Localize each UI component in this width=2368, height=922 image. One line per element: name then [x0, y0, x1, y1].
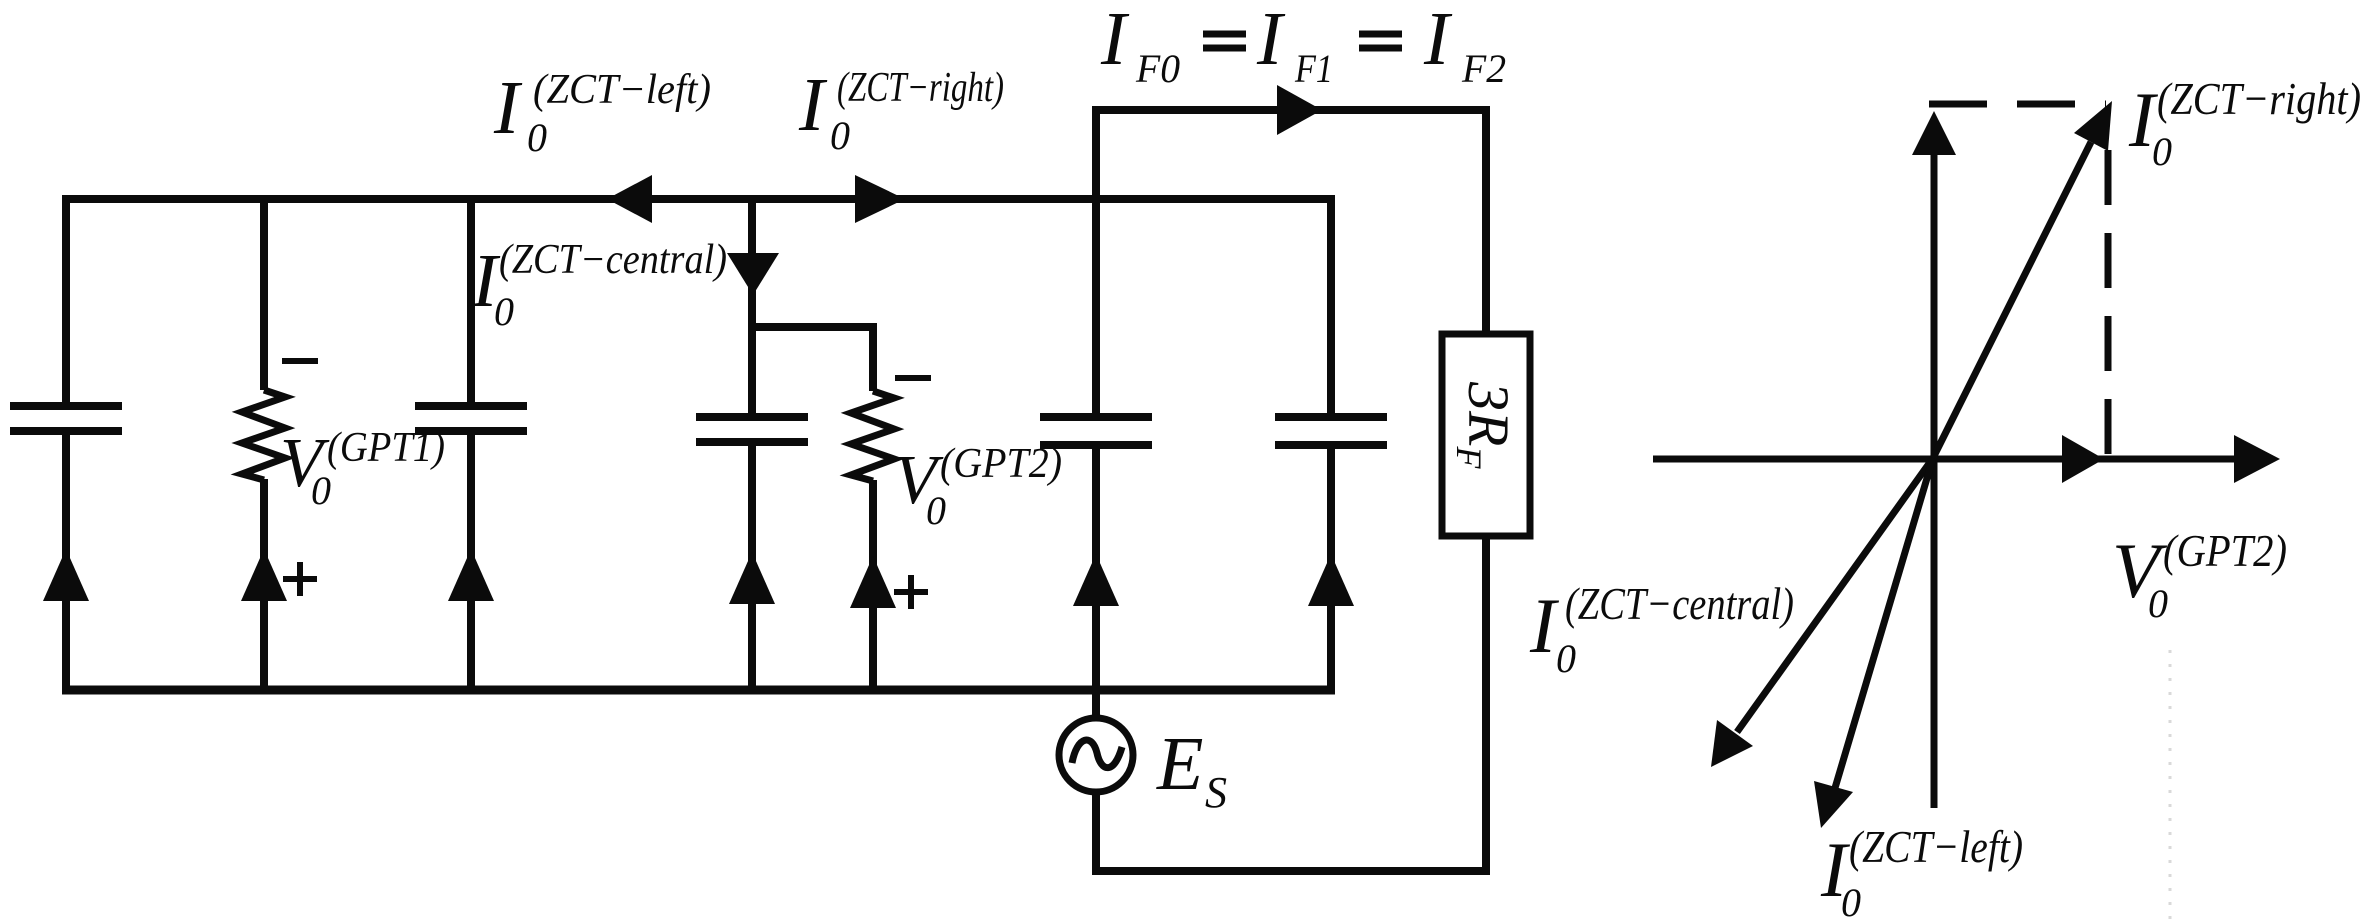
arrow right on outer top wire IF	[1277, 85, 1322, 135]
wire branch5 upper	[1327, 195, 1335, 414]
svg-text:(ZCT−left): (ZCT−left)	[1849, 821, 2023, 872]
label I0 ZCT-left	[493, 66, 711, 160]
svg-text:(GPT2): (GPT2)	[2163, 525, 2287, 576]
svg-text:F0: F0	[1135, 46, 1180, 91]
svg-text:I: I	[1423, 0, 1453, 81]
wire outer top	[1092, 106, 1490, 114]
phasor horizontal axis	[1653, 456, 2240, 463]
svg-text:0: 0	[2148, 581, 2168, 626]
svg-text:F1: F1	[1294, 46, 1333, 91]
label phasor I0 ZCT-central	[1529, 578, 1794, 681]
arrow right on top rail I0 ZCT-right	[855, 175, 905, 223]
svg-text:(ZCT−right): (ZCT−right)	[837, 65, 1004, 111]
wire branch2 lower	[260, 479, 268, 692]
phasor axis arrow right	[2234, 435, 2280, 483]
capacitor C1	[10, 406, 122, 431]
arrow down central branch	[727, 253, 779, 295]
wire branch3 upper	[467, 195, 475, 403]
arrow up R2 branch	[850, 556, 896, 608]
minus sign R1	[282, 358, 318, 364]
label V0 GPT2	[894, 441, 1062, 533]
wire below source	[1092, 792, 1100, 875]
svg-text:0: 0	[1841, 880, 1861, 922]
phasor vertical axis	[1931, 150, 1938, 808]
wire branch1 lower	[62, 434, 70, 692]
svg-text:0: 0	[494, 289, 514, 334]
plus sign R2	[894, 575, 928, 609]
arrow up branch5	[1308, 554, 1354, 606]
phasor I0-right arrowhead	[2074, 101, 2112, 151]
wire bottom rail	[62, 686, 1335, 695]
phasor I0-left arrowhead	[1814, 781, 1853, 828]
svg-text:0: 0	[830, 113, 850, 158]
wire central branch upper	[748, 195, 756, 414]
svg-text:0: 0	[527, 115, 547, 160]
label ES	[1156, 722, 1227, 817]
svg-text:(GPT1): (GPT1)	[327, 425, 445, 471]
arrow up branch2	[241, 549, 287, 601]
label phasor V0 GPT2	[2112, 525, 2287, 626]
arrow left on top rail I0 ZCT-left	[607, 175, 652, 223]
faint dotted artifact line	[2169, 650, 2172, 922]
resistor R2	[851, 391, 894, 481]
phasor dashed vertical	[2105, 150, 2112, 456]
label V0 GPT1	[280, 425, 445, 513]
resistor R1	[242, 390, 285, 480]
wire branch2 upper	[260, 195, 268, 390]
wire branch5 lower	[1327, 448, 1335, 692]
svg-text:(ZCT−central): (ZCT−central)	[499, 237, 727, 283]
svg-text:E: E	[1156, 722, 1203, 806]
svg-text:0: 0	[2152, 129, 2172, 174]
phasor diagram	[1653, 104, 2240, 922]
wire R2 branch upper	[869, 327, 877, 391]
label I0 ZCT-central	[471, 237, 727, 334]
wire outer right lower	[1482, 534, 1490, 875]
label 3RF rotated	[1449, 381, 1521, 469]
wire outer right upper	[1482, 106, 1490, 337]
arrow up branch3	[448, 549, 494, 601]
svg-text:0: 0	[926, 488, 946, 533]
arrow up branch4	[1073, 554, 1119, 606]
arrow up central branch	[729, 552, 775, 604]
label I0 ZCT-right	[798, 63, 1004, 158]
wire branch3 lower	[467, 434, 475, 692]
svg-text:(GPT2): (GPT2)	[940, 441, 1062, 487]
phasor I0-left line	[1835, 458, 1933, 788]
capacitor C3	[696, 417, 808, 442]
wire branch1 upper	[62, 195, 70, 403]
wire tee to R2	[748, 323, 877, 331]
svg-text:(ZCT−right): (ZCT−right)	[2157, 73, 2361, 124]
phasor I0-central line	[1737, 458, 1933, 732]
phasor axis arrow up	[1912, 111, 1956, 155]
resistor 3RF box	[1442, 334, 1530, 536]
svg-text:(ZCT−central): (ZCT−central)	[1565, 578, 1794, 629]
wire branch4 upper	[1092, 106, 1100, 414]
svg-text:I: I	[1100, 0, 1130, 81]
phasor I0-central arrowhead	[1711, 720, 1753, 767]
capacitor C5	[1275, 417, 1387, 445]
wire central branch lower	[748, 445, 756, 692]
wire outer bottom	[1092, 867, 1490, 875]
svg-text:(ZCT−left): (ZCT−left)	[533, 67, 711, 113]
wire top rail	[62, 195, 1335, 203]
AC source ES circle	[1059, 718, 1133, 792]
label IF0 = IF1 = IF2	[1100, 0, 1506, 91]
svg-text:F2: F2	[1461, 46, 1506, 91]
svg-text:I: I	[493, 66, 523, 150]
phasor dashed horizontal	[1929, 101, 2106, 108]
wire R2 branch lower	[869, 480, 877, 692]
AC source sine	[1072, 740, 1122, 768]
phasor V0 arrowhead	[2062, 435, 2104, 483]
capacitor C4	[1040, 417, 1152, 445]
plus sign R1	[283, 562, 317, 596]
capacitor C2	[415, 406, 527, 431]
svg-text:S: S	[1205, 768, 1227, 817]
svg-text:0: 0	[311, 468, 331, 513]
wire branch4 lower	[1092, 448, 1100, 718]
svg-text:I: I	[1256, 0, 1286, 81]
phasor I0-right line	[1933, 142, 2091, 458]
svg-text:I: I	[798, 63, 828, 147]
minus sign R2	[895, 375, 931, 381]
label phasor I0 ZCT-left	[1820, 821, 2023, 922]
label phasor I0 ZCT-right	[2128, 73, 2361, 174]
svg-text:0: 0	[1556, 636, 1576, 681]
arrow up branch1	[43, 549, 89, 601]
